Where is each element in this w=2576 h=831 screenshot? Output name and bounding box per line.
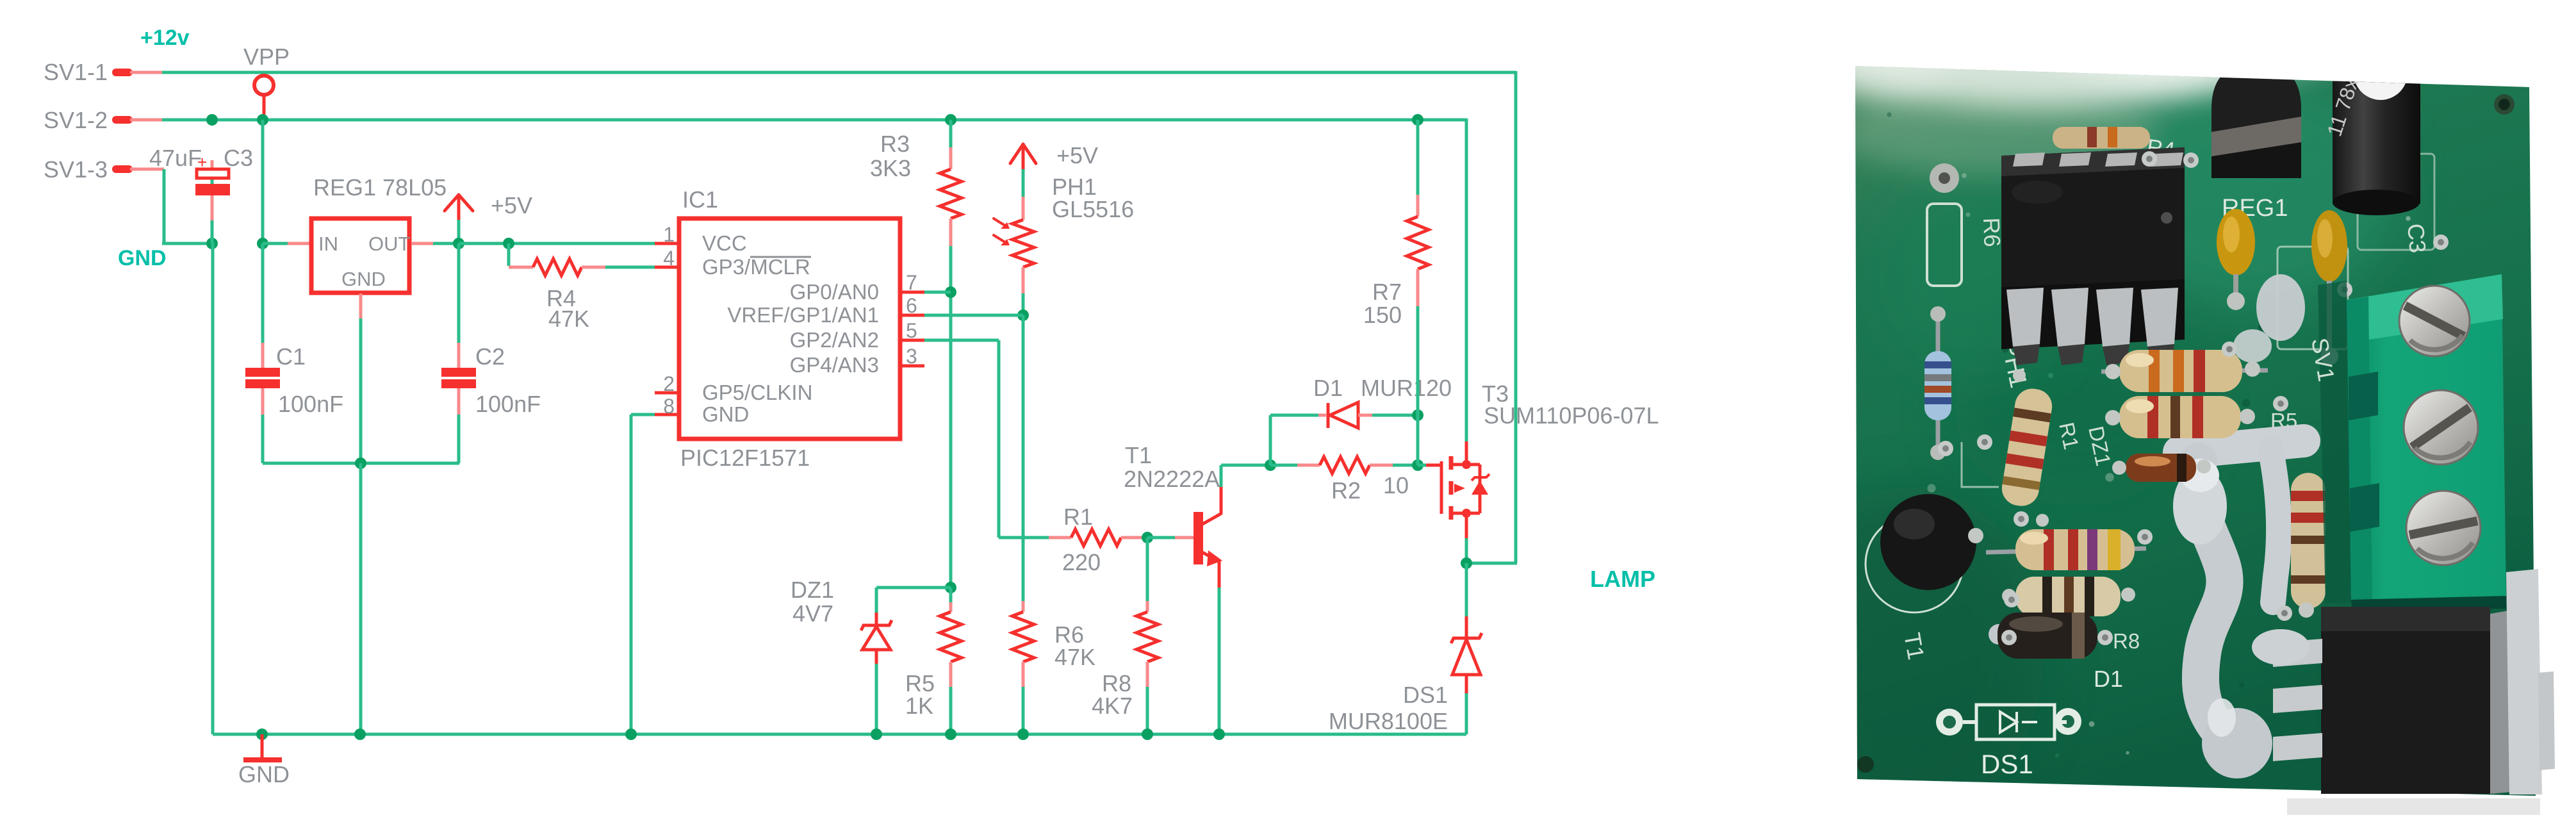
svg-text:1K: 1K <box>905 693 933 719</box>
svg-text:VCC: VCC <box>702 231 747 255</box>
svg-text:OUT: OUT <box>368 233 411 255</box>
svg-text:3K3: 3K3 <box>870 155 911 181</box>
svg-text:DS1: DS1 <box>1403 682 1448 708</box>
svg-text:SV1-3: SV1-3 <box>44 156 108 183</box>
svg-text:SV1-1: SV1-1 <box>44 59 108 85</box>
svg-text:VREF/GP1/AN1: VREF/GP1/AN1 <box>727 303 879 327</box>
svg-text:IC1: IC1 <box>682 186 718 213</box>
svg-text:GND: GND <box>118 246 167 270</box>
svg-text:R2: R2 <box>1331 477 1361 504</box>
svg-text:220: 220 <box>1062 549 1101 575</box>
svg-text:VPP: VPP <box>243 44 290 70</box>
svg-text:GP3/MCLR: GP3/MCLR <box>702 255 810 279</box>
svg-text:GL5516: GL5516 <box>1052 196 1134 222</box>
svg-text:1: 1 <box>663 223 675 246</box>
svg-text:C3: C3 <box>224 145 253 171</box>
svg-text:C2: C2 <box>475 343 505 370</box>
svg-text:MUR8100E: MUR8100E <box>1329 708 1448 734</box>
svg-text:D1: D1 <box>1313 375 1343 401</box>
svg-text:GND: GND <box>238 761 290 787</box>
svg-text:8: 8 <box>663 395 675 418</box>
svg-text:150: 150 <box>1363 302 1402 328</box>
svg-text:47K: 47K <box>548 306 589 332</box>
svg-text:GP5/CLKIN: GP5/CLKIN <box>702 381 812 404</box>
svg-text:GND: GND <box>702 402 749 426</box>
svg-text:T1: T1 <box>1125 442 1152 468</box>
svg-text:MUR120: MUR120 <box>1361 375 1452 401</box>
svg-text:+5V: +5V <box>1056 142 1098 169</box>
svg-text:T1: T1 <box>1899 630 1930 661</box>
svg-text:6: 6 <box>906 294 917 317</box>
svg-text:4: 4 <box>663 247 675 270</box>
svg-text:47uF: 47uF <box>149 145 202 171</box>
svg-text:LAMP: LAMP <box>1590 566 1655 592</box>
svg-text:GP2/AN2: GP2/AN2 <box>790 328 879 352</box>
svg-text:+12v: +12v <box>140 26 190 50</box>
svg-text:47K: 47K <box>1054 644 1095 670</box>
svg-text:C1: C1 <box>276 343 306 370</box>
svg-text:R3: R3 <box>880 131 910 157</box>
svg-text:4V7: 4V7 <box>792 600 833 627</box>
svg-text:4K7: 4K7 <box>1092 693 1133 719</box>
svg-text:2: 2 <box>663 372 675 395</box>
svg-text:GND: GND <box>341 268 386 290</box>
svg-text:D1: D1 <box>2094 666 2123 692</box>
svg-text:10: 10 <box>1383 472 1409 498</box>
svg-text:+: + <box>197 152 207 172</box>
svg-text:100nF: 100nF <box>475 391 541 417</box>
svg-text:SUM110P06-07L: SUM110P06-07L <box>1484 402 1659 429</box>
svg-text:SV1-2: SV1-2 <box>44 107 108 133</box>
svg-text:IN: IN <box>318 233 338 255</box>
svg-text:100nF: 100nF <box>278 391 343 417</box>
svg-text:REG1 78L05: REG1 78L05 <box>313 174 447 201</box>
svg-text:DS1: DS1 <box>1981 749 2033 779</box>
svg-text:7: 7 <box>906 271 917 294</box>
svg-text:PIC12F1571: PIC12F1571 <box>680 445 810 471</box>
svg-text:GP0/AN0: GP0/AN0 <box>790 280 879 304</box>
svg-text:DZ1: DZ1 <box>791 577 834 603</box>
svg-text:R1: R1 <box>1063 504 1093 530</box>
svg-text:+5V: +5V <box>491 192 532 218</box>
svg-text:R7: R7 <box>1372 279 1402 305</box>
svg-text:2N2222A: 2N2222A <box>1124 466 1220 492</box>
svg-text:R8: R8 <box>2113 629 2140 653</box>
svg-text:GP4/AN3: GP4/AN3 <box>790 353 879 377</box>
svg-text:3: 3 <box>906 345 917 368</box>
svg-text:5: 5 <box>906 319 917 342</box>
